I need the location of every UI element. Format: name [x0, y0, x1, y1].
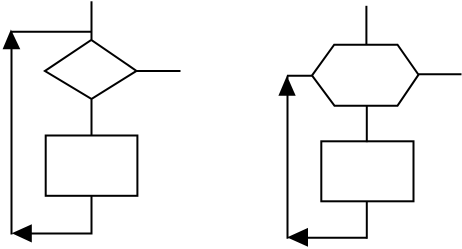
arrowhead: right loop up arrow [278, 76, 295, 96]
process box P1 [46, 136, 138, 196]
wire: hexagon to process box [366, 106, 368, 143]
wire: hexagon exit right [419, 73, 462, 75]
arrowhead: left loop up arrow [3, 30, 21, 50]
wire: diamond to process box [91, 99, 93, 136]
wire: diamond exit right (false branch) [137, 70, 181, 72]
wire: left loop back rail vertical [11, 31, 13, 235]
arrowhead: right loop bottom-left arrow [287, 228, 308, 247]
wire: left loop top horizontal [12, 31, 92, 33]
wire: left loop bottom horizontal [30, 233, 92, 235]
wire: left entry vertical into decision [91, 1, 93, 40]
wire: right process box exit down [366, 201, 368, 239]
hexagon decision H1 [312, 45, 419, 106]
decision diamond D1 [45, 40, 137, 99]
wire: right loop stub into hexagon left vertex [287, 75, 312, 77]
wire: left process box exit down [91, 196, 93, 235]
wire: right loop back rail vertical [287, 76, 289, 239]
wire: right loop bottom horizontal [306, 237, 367, 239]
process box P2 [321, 141, 413, 201]
arrowhead: left loop bottom-left arrow [12, 224, 32, 242]
wire: right entry vertical into hexagon [365, 6, 367, 45]
